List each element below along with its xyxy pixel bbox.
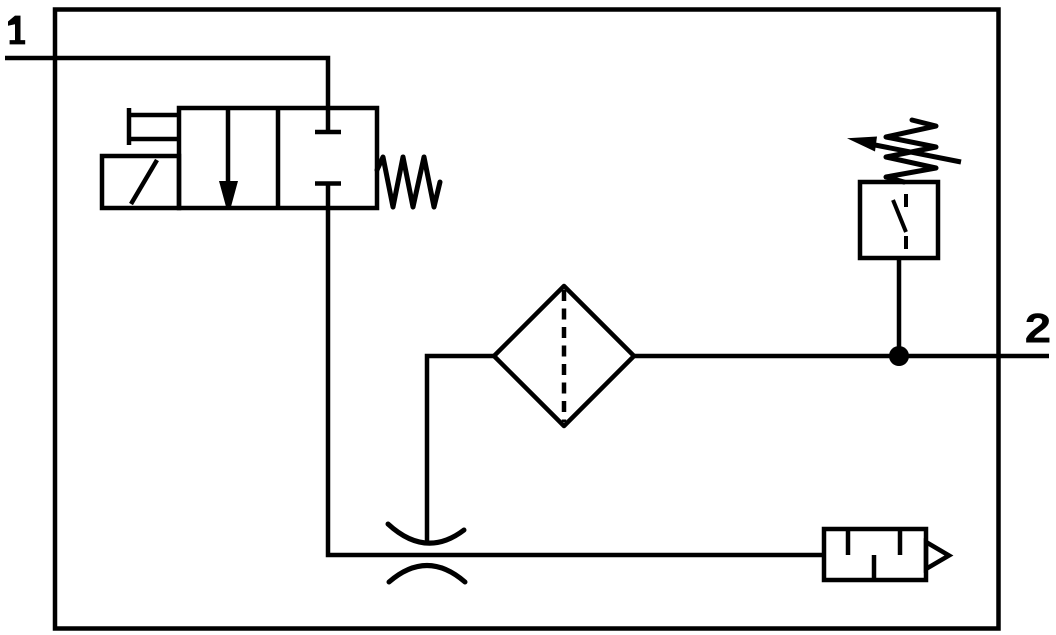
svg-text:2: 2 xyxy=(1023,305,1052,355)
